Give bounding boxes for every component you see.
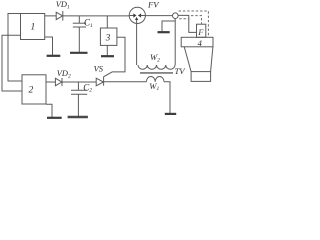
wire connector down to W2 xyxy=(174,19,176,66)
ground bar under C1 xyxy=(70,52,88,54)
svg-text:F: F xyxy=(197,28,204,37)
thyristor VS xyxy=(96,78,103,86)
wire FV trigger to W2 xyxy=(136,23,138,65)
wire VD2 to VS xyxy=(62,81,96,83)
wire box2 to ground xyxy=(46,104,52,117)
svg-text:W2: W2 xyxy=(150,52,160,63)
svg-text:C2: C2 xyxy=(83,82,92,93)
capacitor C1 xyxy=(78,16,80,23)
diode VD2 xyxy=(55,78,61,85)
wire connector to contact F xyxy=(178,15,196,32)
block 1 xyxy=(21,14,45,40)
svg-text:TV: TV xyxy=(175,66,187,76)
contact F xyxy=(197,24,206,37)
camera 4 body xyxy=(181,37,213,47)
dashed cable lower xyxy=(179,18,189,20)
camera 4 lens xyxy=(191,72,211,82)
wire rail to block 3 xyxy=(106,16,108,28)
svg-text:2: 2 xyxy=(29,86,34,96)
svg-text:W1: W1 xyxy=(149,81,159,92)
ground bar under block3 xyxy=(101,55,114,57)
wire branch to ground near connector xyxy=(162,21,175,31)
wire block3 output to VS gate xyxy=(104,37,125,76)
block 2 xyxy=(22,75,46,104)
wire net A (box1 top-left to box2 left) xyxy=(8,14,22,82)
winding W2 xyxy=(138,65,175,69)
svg-text:4: 4 xyxy=(198,38,203,48)
wire box2 to VD2 xyxy=(46,81,55,83)
svg-text:C1: C1 xyxy=(84,17,93,28)
svg-text:VS: VS xyxy=(94,65,104,74)
wire box1 to ground xyxy=(45,37,53,55)
connector xyxy=(173,13,179,19)
winding W1 xyxy=(146,77,164,82)
ground bar near connector xyxy=(158,31,170,33)
wire VS to W1 xyxy=(104,81,147,83)
svg-text:3: 3 xyxy=(105,32,111,42)
diode VD1 xyxy=(56,12,62,19)
wire top rail (box1 output to FV) xyxy=(45,15,130,17)
svg-text:VD1: VD1 xyxy=(56,0,70,10)
block 3 xyxy=(100,28,117,45)
wire W1 to ground drop xyxy=(164,82,170,113)
wire block3 to ground xyxy=(106,45,108,55)
svg-text:1: 1 xyxy=(31,23,36,33)
camera 4 bellows xyxy=(184,47,213,72)
transformer core xyxy=(140,72,173,74)
ground bar under box1 xyxy=(47,55,61,57)
ground bar under box2 xyxy=(47,117,62,119)
capacitor C2 xyxy=(77,82,79,90)
svg-text:FV: FV xyxy=(147,0,160,9)
svg-text:VD2: VD2 xyxy=(57,69,71,79)
flash lamp FV xyxy=(129,7,145,23)
wire net B (box1 left to box2 left) xyxy=(2,35,22,91)
ground bar bottom right xyxy=(165,113,176,115)
dashed cable to contact F xyxy=(191,16,202,24)
dashed cable upper xyxy=(179,11,209,37)
wire FV to connector xyxy=(145,15,172,17)
ground bar under C2 xyxy=(68,116,88,118)
